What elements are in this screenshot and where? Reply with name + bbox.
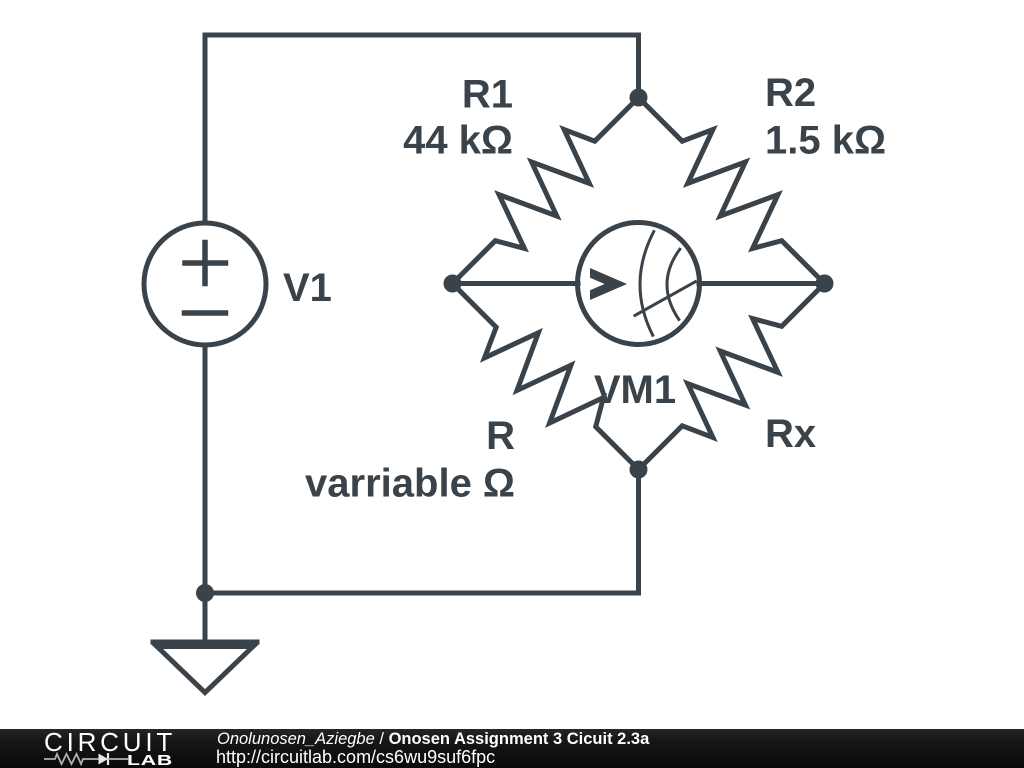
- VM1 meter arcs: [635, 232, 695, 336]
- voltmeter VM1 circle: [578, 223, 700, 345]
- resistor R1: [453, 98, 639, 284]
- resistor Rx: [639, 284, 825, 470]
- wire meter to right node: [699, 281, 825, 286]
- credit line: [217, 730, 649, 749]
- wire bottom rail: [205, 470, 639, 594]
- voltage source V1 circle: [144, 223, 266, 345]
- node dot top: [630, 89, 648, 107]
- resistor R (variable): [453, 284, 639, 470]
- node dot bottom: [630, 461, 648, 479]
- svg-text:Rx: Rx: [765, 412, 816, 456]
- svg-text:VM1: VM1: [594, 368, 676, 412]
- svg-text:44 kΩ: 44 kΩ: [403, 119, 513, 163]
- footer bar: [0, 729, 1024, 768]
- node dot left: [444, 275, 462, 293]
- svg-text:varriable Ω: varriable Ω: [305, 462, 515, 506]
- svg-text:1.5 kΩ: 1.5 kΩ: [765, 119, 886, 163]
- wire left node to meter: [453, 281, 579, 286]
- VM1 needle: [635, 282, 695, 316]
- svg-text:R2: R2: [765, 71, 816, 115]
- svg-text:V1: V1: [283, 266, 332, 310]
- url line: [216, 747, 495, 768]
- V1 plus sign: [185, 243, 226, 314]
- svg-text:R: R: [486, 414, 515, 458]
- wire top loop V1 to top node: [205, 35, 639, 222]
- node dot right: [816, 275, 834, 293]
- svg-text:R1: R1: [462, 73, 513, 117]
- wire V1 bottom to ground rail: [203, 346, 208, 642]
- ground symbol: [153, 640, 257, 645]
- resistor R2: [639, 98, 825, 284]
- V1 minus sign: [185, 310, 226, 316]
- logo resistor-diode glyph: [44, 752, 129, 766]
- VM1 > mark: [590, 268, 627, 300]
- CircuitLab logo text: [44, 727, 176, 758]
- node dot ground junction: [196, 584, 214, 602]
